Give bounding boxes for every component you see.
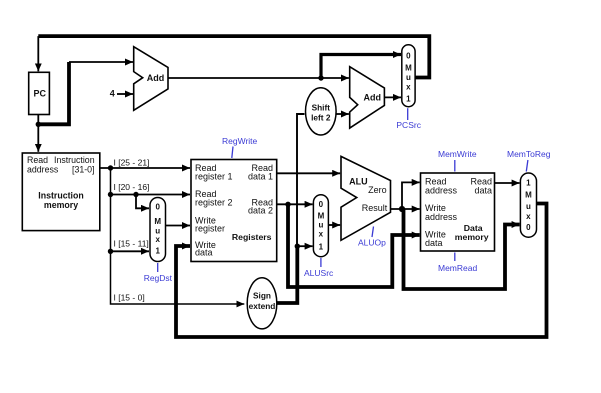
svg-text:data 2: data 2: [248, 205, 273, 215]
svg-text:address: address: [27, 165, 59, 175]
svg-text:data: data: [195, 248, 213, 258]
svg-text:Sign: Sign: [253, 290, 271, 300]
svg-text:RegWrite: RegWrite: [222, 136, 258, 146]
svg-text:M: M: [405, 64, 412, 73]
svg-text:x: x: [406, 82, 411, 91]
svg-text:ALUOp: ALUOp: [358, 237, 386, 247]
svg-text:PC: PC: [34, 89, 47, 99]
svg-text:1: 1: [319, 243, 324, 252]
svg-text:Zero: Zero: [368, 185, 387, 195]
svg-text:data 1: data 1: [248, 172, 273, 182]
svg-text:M: M: [318, 212, 325, 221]
svg-text:MemToReg: MemToReg: [507, 149, 551, 159]
svg-text:I [15 - 0]: I [15 - 0]: [114, 293, 145, 303]
svg-text:1: 1: [406, 94, 411, 103]
svg-text:address: address: [425, 212, 458, 222]
svg-text:Add: Add: [364, 92, 382, 102]
svg-text:Result: Result: [362, 203, 388, 213]
svg-text:memory: memory: [44, 200, 78, 210]
svg-text:RegDst: RegDst: [144, 273, 173, 283]
svg-text:[31-0]: [31-0]: [72, 165, 95, 175]
svg-text:left 2: left 2: [311, 113, 331, 123]
svg-text:register 1: register 1: [195, 172, 233, 182]
svg-text:ALUSrc: ALUSrc: [304, 268, 334, 278]
svg-text:u: u: [406, 73, 411, 82]
svg-text:u: u: [318, 221, 323, 230]
svg-text:0: 0: [406, 52, 411, 61]
svg-text:register 2: register 2: [195, 198, 233, 208]
svg-text:4: 4: [110, 89, 115, 99]
svg-text:address: address: [425, 186, 458, 196]
svg-text:0: 0: [155, 203, 160, 212]
svg-text:Instruction: Instruction: [38, 191, 83, 201]
svg-text:1: 1: [155, 247, 160, 256]
svg-text:1: 1: [526, 179, 531, 188]
svg-text:M: M: [154, 217, 161, 226]
svg-text:x: x: [319, 230, 324, 239]
svg-text:data: data: [425, 238, 443, 248]
svg-text:Shift: Shift: [312, 103, 331, 113]
svg-text:PCSrc: PCSrc: [396, 120, 421, 130]
svg-text:MemRead: MemRead: [438, 263, 477, 273]
svg-text:I [25 - 21]: I [25 - 21]: [114, 158, 150, 168]
svg-text:I [15 - 11]: I [15 - 11]: [114, 238, 149, 248]
svg-text:I [20 - 16]: I [20 - 16]: [114, 182, 150, 192]
svg-text:extend: extend: [249, 301, 276, 311]
svg-text:u: u: [526, 202, 531, 211]
svg-text:data: data: [474, 186, 492, 196]
svg-text:ALU: ALU: [349, 176, 368, 186]
svg-text:0: 0: [526, 223, 531, 232]
svg-text:x: x: [155, 235, 160, 244]
svg-text:x: x: [526, 212, 531, 221]
svg-text:M: M: [525, 191, 532, 200]
svg-text:MemWrite: MemWrite: [438, 149, 477, 159]
svg-text:register: register: [195, 224, 225, 234]
svg-text:memory: memory: [455, 232, 489, 242]
svg-text:Add: Add: [147, 73, 165, 83]
svg-text:Registers: Registers: [232, 232, 272, 242]
svg-text:0: 0: [319, 200, 324, 209]
